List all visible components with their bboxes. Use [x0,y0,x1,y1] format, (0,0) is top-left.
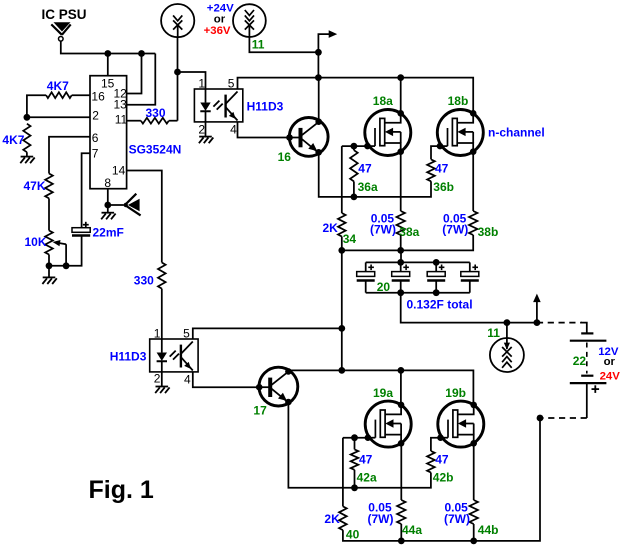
wire: dashed battery to bottom bus [540,417,587,419]
pin 14 label [112,164,126,178]
label 11 (top) [252,37,265,51]
svg-text:16: 16 [91,90,105,104]
wire: pin 7 to 22mF [82,153,90,227]
resistor 0.05 44b [470,500,478,524]
svg-text:11: 11 [487,326,500,340]
pin 15 label [101,76,115,90]
wire: down to drain line (bottom) [341,328,343,370]
pin 5 label U3 [183,327,190,341]
wire: 330 to opto U3 pin 1 [161,289,163,339]
junction: battery return tap [537,415,544,422]
label 18a [373,94,393,108]
svg-text:19a: 19a [373,386,393,400]
label 12V [598,346,619,358]
label 22mF [93,225,124,239]
connector arrow (to IC PSU) [124,194,141,216]
junction: pin12 riser on VCC rail [138,50,145,57]
wire: U2 pin4 to Q16 base [238,122,290,138]
label H11D3 (U3) [110,350,147,364]
label 4K7 (horizontal) [47,79,69,93]
resistor 0.05 44a [397,500,405,524]
wire: 44b to bus [473,524,475,541]
wire: pin 11 lead [127,120,141,122]
transistor 17 (NPN) [256,367,298,406]
label (7W) (38a) [370,222,396,236]
svg-text:1: 1 [154,327,161,341]
label 24V [600,371,621,383]
label H11D3 (U2) [247,99,284,113]
svg-text:24V: 24V [600,371,621,383]
junction: 42a on gate bus [351,484,358,491]
svg-text:2: 2 [154,372,161,386]
svg-text:22: 22 [573,354,587,368]
svg-text:42a: 42a [357,470,377,484]
label 36b [433,180,454,194]
resistor 2K 40 [339,506,347,530]
svg-text:22mF: 22mF [93,225,124,239]
junction: cap3 bottom [433,289,440,296]
MOSFET 19a [365,401,412,447]
pin 12 label [114,86,128,100]
junction: arrow/battery tap [534,319,541,326]
label (7W) (44a) [368,512,394,526]
wire: 19a drain riser [400,370,402,405]
wire: 36b to 18b gate [431,146,440,159]
svg-text:47: 47 [435,453,449,467]
junction: 18a drain on rail [397,74,404,81]
svg-text:4K7: 4K7 [47,79,69,93]
wire: 44a to bus [400,524,402,541]
svg-text:38b: 38b [478,225,499,239]
label 330 (vertical) [134,274,154,288]
junction: node B [315,49,322,56]
wire: 2K to cap bus [341,237,343,251]
pin 1 label U2 [198,77,205,91]
svg-text:16: 16 [278,150,292,164]
wire: 19a gate corner down [342,438,344,507]
capacitor bank 20 (4 electrolytics) [357,250,479,292]
label 0.05 (44b) [445,501,469,515]
svg-text:H11D3: H11D3 [110,350,147,364]
wire: pin 16 lead [72,94,90,96]
svg-text:0.132F total: 0.132F total [407,298,473,312]
wire: 330 to node A riser [169,120,178,122]
connector: IC PSU input [51,22,70,41]
junction: pin15 riser on VCC rail [104,50,111,57]
junction: 44b on bottom bus [470,538,477,545]
pin 8 label [104,176,111,190]
svg-text:13: 13 [114,98,128,112]
transistor 16 (NPN) [286,117,328,156]
label 44a [402,523,422,537]
wire: 42b to 19b gate [431,438,441,451]
wire: 47K to 10K [48,198,50,230]
wire: cap bus [342,235,473,250]
label 47 (42a) [359,453,373,467]
ground (U2 pin 2) [199,137,213,144]
svg-text:330: 330 [146,106,166,120]
resistor 47 42a [351,438,359,488]
label 330 (horizontal) [146,106,166,120]
wire: Q16 emitter to gate bus 34 [319,152,354,197]
ground (U3 pin 2) [155,387,169,394]
ground (pin 8) [101,213,115,220]
svg-text:or: or [214,14,226,26]
wire: 10K bottom to ground node [48,255,50,266]
label 0.05 (38a) [371,211,395,225]
wire: node A down to resistor 330 [177,72,179,121]
resistor 2K 34 [338,213,346,237]
wire: pin 13 [127,54,156,105]
wire: lamp 11 to node B [249,37,318,52]
potentiometer 10K [45,231,53,255]
wire: wiper down [65,244,67,266]
svg-text:10K: 10K [25,235,47,249]
wire: 19a gate to junction [343,437,368,439]
label Fig. 1 [89,476,154,504]
MOSFET 18b [437,110,484,156]
label 17 [253,403,267,417]
wire: U3 pin2 to ground [161,372,163,387]
svg-text:36b: 36b [433,180,454,194]
junction: 44a on bottom bus [398,538,405,545]
label 38b [478,225,499,239]
svg-text:47: 47 [435,162,449,176]
svg-text:36a: 36a [358,180,378,194]
pin 16 label [91,90,105,104]
lamp/fuse 11 (top) [233,4,266,37]
wire: ground node to 22mF bottom [49,235,82,265]
wiper arrow of 10K [53,240,67,246]
wire: 18a gate corner down [341,146,343,213]
resistor 47 36a [350,146,358,197]
label 11 (right) [487,326,500,340]
arrow: output to control (top right) [318,30,337,52]
label 38a [399,225,419,239]
pin 7 label [92,146,99,160]
svg-text:(7W): (7W) [442,222,468,236]
wire: U2 pin2 to ground [205,122,207,137]
label (7W) (44b) [444,512,470,526]
label 34 [343,232,357,246]
wire: pin 6 lead [49,137,90,174]
svg-text:47: 47 [359,453,373,467]
resistor 47 36b [427,159,435,181]
arrow: output (right, up) [533,294,541,323]
svg-text:40: 40 [346,528,360,542]
junction: 36a on gate bus [351,194,358,201]
wire: 19a source down [400,443,402,500]
wire: gate bus 34 to 36b [354,181,431,197]
wire: Q17 emitter to gate bus 42 [288,402,354,488]
wire: 18b source down [472,152,474,211]
svg-text:5: 5 [183,327,190,341]
svg-text:or: or [604,356,616,368]
pin 6 label [92,131,99,145]
svg-text:(7W): (7W) [444,512,470,526]
wire: U3 pin5 right [193,328,342,339]
wire: cap bank output [401,293,537,323]
optocoupler U2 H11D3 [194,89,242,122]
svg-text:H11D3: H11D3 [247,99,284,113]
svg-text:2: 2 [198,123,205,137]
wire: drain line (bottom) [288,370,473,405]
wire: node A to opto U2 pin 1 [178,72,206,89]
svg-text:20: 20 [377,280,391,294]
pin 11 label [115,113,128,127]
lamp/fuse left supply [161,4,194,37]
wire: cap bus to opto2 pin5 node [341,250,343,328]
svg-text:19b: 19b [445,386,466,400]
wire: 4K7 to ground [26,152,28,156]
label 42b [433,470,454,484]
plus sign 22mF [83,222,89,228]
wire: U3 pin4 to Q17 base [193,372,259,387]
label 16 [278,150,292,164]
wire: 18a source down [400,152,402,211]
wire: Q16 collector up [318,78,320,122]
svg-text:330: 330 [134,274,154,288]
pin 5 label U2 [228,77,235,91]
svg-text:8: 8 [104,176,111,190]
label n-channel [488,126,545,140]
junction: pin 8 ground node [104,202,111,209]
svg-text:(7W): (7W) [368,512,394,526]
svg-text:4: 4 [184,372,191,386]
wire: 4K7 to pin2 node [27,95,46,117]
label 40 [346,528,360,542]
wire: pin 8 lead [107,189,109,205]
pin 2 label U2 [198,123,205,137]
junction: ground node (10K bottom) [46,262,53,269]
plus sign battery [592,385,600,393]
svg-text:Fig. 1: Fig. 1 [89,476,154,504]
wire: U2 pin5 to drain rail [238,78,319,89]
resistor 47 42b [427,451,435,473]
pin 4 label U3 [184,372,191,386]
junction: wiper tie [63,262,70,269]
wire: dashed to battery +top [537,323,587,334]
optocoupler U3 H11D3 [150,339,198,372]
wire: pin 14 lead [127,171,162,263]
lamp/fuse 11 (right) [490,323,524,372]
label (7W) (38b) [442,222,468,236]
wire: 18a drain riser [400,78,402,114]
resistor 0.05 38a [397,211,405,235]
svg-text:42b: 42b [433,470,454,484]
label SG3524N [129,143,182,157]
label 0.05 (44a) [368,501,392,515]
svg-text:47: 47 [358,162,372,176]
label 0.05 (38b) [443,211,467,225]
svg-text:14: 14 [112,164,126,178]
label 42a [357,470,377,484]
svg-text:2K: 2K [323,221,339,235]
resistor 4K7 (to ground) [23,124,30,153]
wire: drain rail (top) [318,78,473,114]
wire: IC PSU to VCC rail [61,41,156,53]
capacitor 22mF [72,228,90,236]
MOSFET 18a [364,110,411,156]
battery 22 plates [570,333,607,383]
label 18b [448,94,469,108]
label 19b [445,386,466,400]
label 19a [373,386,393,400]
pin 2 label U3 [154,372,161,386]
svg-text:44b: 44b [478,523,499,537]
junction: pin2 / 4K7 divider [24,114,31,121]
svg-text:(7W): (7W) [370,222,396,236]
svg-text:11: 11 [252,37,265,51]
wire: battery minus lead [586,383,588,418]
svg-text:1: 1 [198,77,205,91]
wire: 18a gate to junction [342,145,368,147]
wire: ground lead [48,266,50,278]
svg-text:18b: 18b [448,94,469,108]
junction: cap bus left [338,247,345,254]
label or (top) [214,14,226,26]
ground (main, under 10K) [42,277,56,284]
label 22 [573,354,587,368]
wire: 2K to bottom bus [343,418,540,541]
junction: node A (lamp1/opto1 pin1/330) [174,69,181,76]
pin 2 label [92,109,99,123]
label 47 (36a) [358,162,372,176]
junction: 18a gate / 36a [351,143,358,150]
svg-text:17: 17 [253,403,267,417]
svg-text:6: 6 [92,131,99,145]
label 10K [25,235,47,249]
resistor 330 (pin 11) [141,118,169,124]
wire: node B down to drain rail [317,52,319,77]
wire: lamp1 to node A [177,37,179,72]
label 2K (40) [324,512,340,526]
junction: opto2 pin5 node [338,325,345,332]
pin 4 label U2 [230,122,237,136]
label or (battery) [604,356,616,368]
wire: pin 15 riser [107,54,109,76]
wire: pin8 ground lead [107,205,109,213]
svg-text:IC PSU: IC PSU [42,7,87,22]
wire: pin 2 [27,116,90,118]
junction: drain rail / opto1 pin5 [315,74,322,81]
label 44b [478,523,499,537]
svg-text:7: 7 [92,146,99,160]
ground (under 4K7) [20,157,34,164]
wire: gate bus 42 to 42b [355,473,431,488]
svg-text:47K: 47K [24,179,46,193]
label 47 (36b) [435,162,449,176]
junction: 19a gate / 42a [351,434,358,441]
junction: drain line / feedback [338,367,345,374]
label +24V [207,3,234,15]
svg-text:18a: 18a [373,94,393,108]
svg-text:2: 2 [92,109,99,123]
junction: cap2 top [397,259,404,266]
svg-text:4K7: 4K7 [2,133,24,147]
label 2K (34) [323,221,339,235]
resistor 4K7 (pin16) [46,92,72,98]
wire: pin8 node to arrow [108,204,124,206]
label IC PSU [42,7,87,22]
svg-text:38a: 38a [399,225,419,239]
junction: lamp 11 tap [504,319,511,326]
svg-text:44a: 44a [402,523,422,537]
label 20 [377,280,391,294]
resistor 330 (pin 14) [158,263,166,289]
svg-text:n-channel: n-channel [488,126,545,140]
label 0.132F total [407,298,473,312]
junction: 19a drain on line [398,367,405,374]
wire: 38a to cap bus [400,235,402,250]
junction: cap3 top [433,259,440,266]
svg-text:11: 11 [115,113,128,127]
svg-text:2K: 2K [324,512,340,526]
label +36V [204,25,231,37]
wire: pin 12 [127,54,142,94]
label 47 (42b) [435,453,449,467]
svg-text:4: 4 [230,122,237,136]
svg-text:5: 5 [228,77,235,91]
label 4K7 (vertical) [2,133,24,147]
wire: 19b source down [473,443,475,500]
svg-text:SG3524N: SG3524N [129,143,182,157]
svg-text:34: 34 [343,232,357,246]
svg-text:+36V: +36V [204,25,231,37]
label 47K [24,179,46,193]
resistor 47K [45,174,53,199]
label 36a [358,180,378,194]
junction: 38a / cap feed on bus [397,247,404,254]
IC U1 SG3524N box [90,76,127,189]
MOSFET 19b [437,401,484,447]
resistor 0.05 38b [469,211,477,235]
pin 13 label [114,98,128,112]
junction: cap2 bottom [397,289,404,296]
pin 1 label U3 [154,327,161,341]
